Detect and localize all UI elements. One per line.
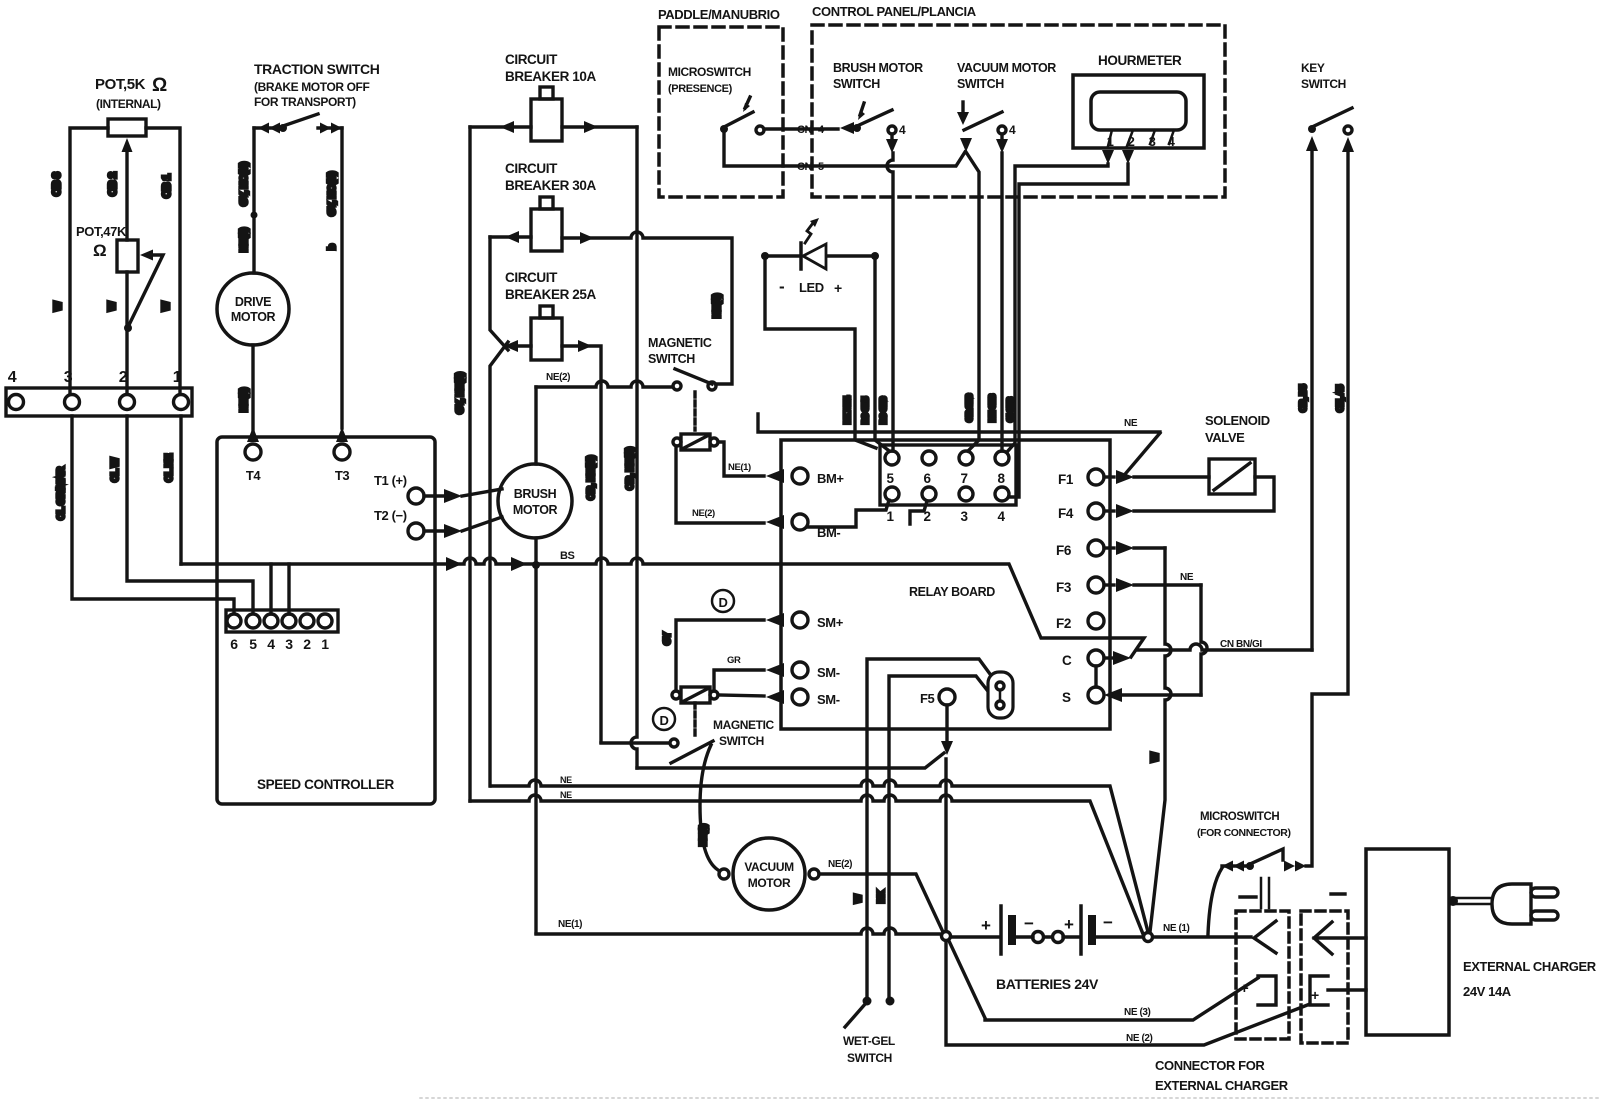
wire F5 down to junction — [944, 759, 947, 931]
wire drive motor to T4 — [251, 345, 254, 430]
svg-text:BRUSH: BRUSH — [514, 487, 557, 501]
vacuum motor M3 — [733, 838, 805, 910]
wire key left down to C wire — [1310, 148, 1313, 650]
svg-text:WET-GEL: WET-GEL — [843, 1034, 895, 1048]
circuit breaker 25A label — [505, 270, 597, 302]
svg-text:CIRCUIT: CIRCUIT — [505, 270, 558, 285]
svg-text:CL GR/MAR: CL GR/MAR — [56, 466, 67, 520]
key switch label — [1301, 61, 1346, 91]
junction node battery left — [942, 932, 951, 941]
relay coil K1 — [681, 434, 710, 450]
traction switch left double arrow — [258, 123, 280, 134]
wire pin1 to BM- — [808, 500, 889, 527]
BS connector arrow 1 — [446, 557, 462, 571]
svg-text:MOTOR: MOTOR — [231, 310, 276, 324]
wire 10A feed to F5 arrow — [637, 753, 944, 768]
microswitch presence contact — [756, 126, 764, 134]
charger cable — [1449, 898, 1492, 904]
svg-text:4: 4 — [8, 369, 17, 386]
svg-text:NE (2): NE (2) — [1126, 1033, 1153, 1044]
svg-text:4: 4 — [899, 123, 906, 137]
BS junction dot brush motor — [532, 561, 540, 569]
svg-text:F3: F3 — [1056, 580, 1072, 595]
svg-text:VALVE: VALVE — [1205, 430, 1245, 445]
svg-text:−: − — [1024, 914, 1034, 933]
controller terminal strip — [226, 610, 338, 632]
svg-text:C: C — [1062, 653, 1072, 668]
magnetic switch 2 contact — [670, 739, 678, 747]
svg-text:NE(3): NE(3) — [239, 388, 250, 412]
external charger label — [1463, 959, 1597, 999]
connector 1 female contact — [1254, 921, 1276, 953]
plug prongs — [1531, 888, 1558, 897]
svg-text:SWITCH: SWITCH — [1301, 77, 1346, 91]
wire LED right down to connector — [875, 260, 888, 450]
wire SM+ from coil2 — [676, 620, 764, 691]
hourmeter pin arrows — [1102, 150, 1134, 164]
svg-text:NE: NE — [560, 775, 572, 785]
wire coil1 to BM- — [676, 446, 764, 523]
solenoid valve body — [1209, 459, 1255, 494]
LED labels — [779, 277, 842, 296]
wire NE(2) bottom — [946, 941, 1310, 1045]
battery wire — [951, 935, 1251, 938]
wire traction left to drive motor — [252, 128, 255, 273]
svg-text:W: W — [1150, 752, 1161, 762]
svg-text:RELAY BOARD: RELAY BOARD — [909, 585, 995, 599]
key switch blade — [1312, 108, 1352, 127]
microswitch presence pivot — [720, 125, 728, 133]
relay board box — [781, 440, 1110, 729]
control panel dashed box — [812, 25, 1225, 197]
wire pot5k left to connector pin 3 — [70, 128, 108, 394]
svg-text:FOR TRANSPORT): FOR TRANSPORT) — [254, 95, 356, 109]
terminal T3 — [334, 444, 350, 460]
wet-gel switch label — [843, 1034, 895, 1065]
microswitch connector blade — [1250, 849, 1283, 864]
svg-text:(FOR CONNECTOR): (FOR CONNECTOR) — [1197, 827, 1291, 839]
svg-text:POT,47K: POT,47K — [76, 224, 127, 239]
brush switch blade — [857, 110, 892, 126]
pot 47K wiper arrow — [140, 250, 153, 261]
svg-text:D: D — [719, 595, 728, 610]
wire CB30A left vertical with zigzag to upper rail — [490, 237, 508, 786]
svg-text:CN, A5: CN, A5 — [1335, 385, 1345, 412]
wire brush switch down to pin5 (hop at CN5) — [887, 153, 893, 451]
connector strip 4-3-2-1 — [6, 388, 192, 416]
svg-text:2: 2 — [119, 369, 128, 386]
SM- terminal 2 — [766, 690, 784, 704]
svg-text:T4: T4 — [246, 468, 262, 483]
svg-text:4: 4 — [997, 509, 1005, 524]
microswitch presence blade — [724, 112, 753, 127]
svg-text:5: 5 — [818, 161, 824, 173]
svg-text:CONTROL PANEL/PLANCIA: CONTROL PANEL/PLANCIA — [812, 4, 977, 19]
svg-text:BK: BK — [876, 890, 886, 903]
wire NE(2) down to brush motor — [534, 387, 537, 464]
wire connector pin2 to controller terminal 5 — [127, 416, 253, 613]
connector 1 plus contact — [1258, 976, 1276, 1005]
wire F1 to solenoid valve — [1134, 475, 1209, 478]
svg-text:SWITCH: SWITCH — [957, 77, 1004, 91]
svg-text:BATTERIES 24V: BATTERIES 24V — [996, 976, 1099, 992]
wire CN5 from paddle — [724, 133, 965, 166]
svg-text:6: 6 — [230, 636, 238, 652]
svg-text:CIRCUIT: CIRCUIT — [505, 161, 558, 176]
svg-text:4: 4 — [267, 636, 275, 652]
arrow into T3 — [336, 427, 348, 442]
magnetic switch 1 label — [648, 336, 712, 366]
brush motor M2 — [498, 464, 572, 538]
wire pin2 stub — [910, 501, 927, 524]
svg-text:(INTERNAL): (INTERNAL) — [96, 97, 161, 111]
junction dot traction left wire — [251, 212, 258, 219]
svg-text:NE(1): NE(1) — [239, 228, 250, 252]
brush motor switch label — [833, 61, 923, 91]
wire NE(3) — [949, 941, 1258, 1020]
wire NE diagonal to F1 — [1126, 433, 1160, 473]
microswitch (presence) label — [668, 65, 751, 95]
drive motor M1 — [217, 273, 289, 345]
svg-text:CB 1: CB 1 — [161, 174, 173, 198]
coil2 dashed link — [693, 703, 696, 739]
wire C to S link — [1094, 666, 1097, 687]
brush switch actuator arrow — [860, 103, 864, 115]
svg-text:NE(1): NE(1) — [558, 919, 582, 930]
svg-text:MAGNETIC: MAGNETIC — [713, 718, 775, 732]
svg-text:SOLENOID: SOLENOID — [1205, 413, 1270, 428]
svg-text:SWITCH: SWITCH — [719, 734, 764, 748]
potentiometer POT 47K body — [117, 240, 138, 272]
wire LED left loop down — [765, 260, 876, 448]
wire CB10A right vertical down (hop over switch2 wire) — [631, 127, 637, 768]
CB25A left arrow — [504, 340, 518, 352]
wire SM-1 from coil2 — [714, 670, 764, 691]
svg-text:CB, NE(B): CB, NE(B) — [586, 456, 597, 500]
svg-text:5: 5 — [886, 471, 894, 486]
BM- terminal — [766, 515, 784, 529]
svg-text:CL W: CL W — [110, 457, 121, 482]
svg-text:NE (1): NE (1) — [1163, 923, 1190, 934]
svg-text:BN CN8: BN CN8 — [988, 394, 997, 422]
svg-text:RS CN5: RS CN5 — [861, 396, 870, 424]
svg-text:PADDLE/MANUBRIO: PADDLE/MANUBRIO — [658, 7, 780, 22]
microswitch for connector label — [1197, 811, 1291, 839]
LED wire and dots — [761, 252, 769, 260]
vacuum switch right contact — [998, 126, 1006, 134]
pot 5K wiper arrow — [122, 138, 133, 152]
svg-text:+: + — [1064, 915, 1074, 934]
CB30A left wire + arrow — [490, 235, 531, 238]
circuit breaker 30A body — [531, 209, 562, 251]
svg-text:-: - — [779, 277, 784, 296]
wire solenoid valve loop to F4 — [1134, 477, 1274, 511]
svg-text:F4: F4 — [1058, 506, 1074, 521]
LED light arrow — [805, 223, 813, 243]
svg-text:T2 (−): T2 (−) — [374, 508, 407, 523]
svg-text:MICROSWITCH: MICROSWITCH — [1200, 811, 1279, 823]
magnetic switch 1 blade — [675, 369, 712, 384]
traction switch right double arrow — [320, 123, 342, 134]
svg-text:BREAKER 10A: BREAKER 10A — [505, 69, 597, 84]
svg-text:EXTERNAL CHARGER: EXTERNAL CHARGER — [1155, 1078, 1289, 1093]
arrow into T4 — [247, 427, 259, 442]
wire jumper to wet-gel right — [889, 676, 987, 997]
svg-text:GY, NC(B): GY, NC(B) — [239, 162, 250, 206]
svg-text:Ω: Ω — [152, 75, 167, 96]
brush switch arrow — [840, 122, 854, 134]
wire F3 down to S — [1134, 583, 1201, 586]
wire F6 down (W feed) — [1134, 546, 1165, 549]
svg-text:4: 4 — [1009, 123, 1016, 137]
svg-text:2: 2 — [303, 636, 311, 652]
svg-text:NE: NE — [1180, 572, 1194, 583]
svg-text:GY, NO(B): GY, NO(B) — [327, 172, 338, 216]
svg-text:POT,5K: POT,5K — [95, 76, 146, 93]
svg-text:S: S — [1062, 690, 1071, 705]
wire NE(2) horizontal — [536, 381, 673, 387]
wire terminal3 up to BS — [287, 564, 290, 614]
svg-text:SM+: SM+ — [817, 615, 844, 630]
svg-text:F2: F2 — [1056, 616, 1071, 631]
wire hourmeter pin2 — [1009, 164, 1128, 497]
wire hourmeter pin1 — [1007, 164, 1108, 452]
speed controller box — [217, 437, 435, 804]
svg-text:LED: LED — [799, 280, 824, 295]
microswitch connector pins — [1261, 878, 1269, 908]
svg-text:RS CN6: RS CN6 — [879, 396, 888, 424]
wire connector pin3 to controller terminal 6 — [72, 416, 234, 613]
paddle/manubrio dashed box — [659, 27, 783, 197]
svg-text:W: W — [161, 301, 172, 311]
jumper connector in relay board — [988, 672, 1013, 718]
connector housing 2 dashed — [1301, 911, 1348, 1043]
svg-text:W: W — [107, 301, 118, 311]
relay coil K2 — [681, 687, 710, 703]
svg-text:GY, NE(2): GY, NE(2) — [455, 373, 466, 414]
magnetic switch 1 coil dashed link — [693, 392, 696, 430]
battery polarity labels — [981, 913, 1113, 935]
svg-text:24V 14A: 24V 14A — [1463, 984, 1512, 999]
key switch pivot — [1308, 125, 1316, 133]
circuit breaker 10A label — [505, 52, 597, 84]
SM- terminal 1 — [766, 663, 784, 677]
wire pot5k right to connector pin 1 — [146, 128, 180, 394]
svg-text:NE(2): NE(2) — [546, 372, 570, 383]
wire vacuum right down to pin8 — [1000, 153, 1003, 451]
D marker upper — [712, 590, 734, 612]
minus mark box2 — [1331, 892, 1345, 895]
connector 2 arrow contact — [1314, 922, 1366, 954]
wire NE top horizontal — [758, 414, 1160, 432]
wire CN4 to brush switch — [764, 127, 838, 130]
plug body — [1492, 884, 1531, 924]
microswitch connector left double arrow — [1222, 861, 1244, 872]
wire microswitch to battery line — [1208, 868, 1222, 934]
CB10A left wire + arrow — [470, 125, 531, 128]
traction switch label — [254, 61, 380, 109]
wire jumper to wet-gel left — [867, 659, 990, 997]
svg-text:GI CN8: GI CN8 — [1006, 397, 1015, 422]
svg-text:NE(2): NE(2) — [692, 508, 715, 519]
svg-text:7: 7 — [960, 471, 967, 486]
junction node battery right — [1144, 933, 1153, 942]
svg-text:BK CN4: BK CN4 — [843, 396, 852, 424]
key switch arrows up — [1306, 136, 1354, 152]
wire switch2 to vacuum motor (arc) — [700, 745, 718, 870]
vacuum switch blade — [964, 112, 1002, 130]
traction switch pivot — [279, 124, 287, 132]
svg-text:T3: T3 — [335, 468, 350, 483]
svg-text:NE(1): NE(1) — [728, 462, 751, 473]
svg-text:1: 1 — [321, 636, 329, 652]
microswitch connector pivot — [1246, 862, 1254, 870]
svg-text:CN: CN — [797, 161, 813, 173]
svg-text:F1: F1 — [1058, 472, 1074, 487]
svg-text:−: − — [1103, 913, 1113, 932]
svg-text:NE (3): NE (3) — [1124, 1007, 1151, 1018]
svg-text:BM-: BM- — [817, 525, 840, 540]
T2 arrow — [424, 529, 444, 532]
wire vacuum left down to pin7 — [966, 152, 979, 451]
wire NE(1) long — [536, 928, 941, 934]
svg-text:T1 (+): T1 (+) — [374, 473, 407, 488]
vacuum switch left contact arrow — [960, 138, 972, 152]
magnetic switch 2 label — [713, 718, 775, 748]
svg-text:MOTOR: MOTOR — [513, 503, 558, 517]
svg-text:CL NE: CL NE — [164, 453, 175, 482]
svg-text:NE(2): NE(2) — [828, 859, 852, 870]
brush switch contact — [888, 126, 896, 134]
svg-text:KEY: KEY — [1301, 61, 1325, 75]
svg-text:F6: F6 — [1056, 543, 1072, 558]
svg-text:1: 1 — [886, 509, 894, 524]
microswitch connector right arrow — [1284, 861, 1306, 872]
battery cell 2 — [0, 0, 1, 1]
terminal T4 — [245, 444, 261, 460]
wire terminal4 up to BS — [269, 564, 272, 614]
svg-text:SM-: SM- — [817, 665, 840, 680]
svg-text:HOURMETER: HOURMETER — [1098, 53, 1182, 68]
battery connector circles — [1033, 932, 1044, 943]
circuit breaker 30A label — [505, 161, 597, 193]
svg-text:BS: BS — [560, 550, 575, 562]
brush switch contact arrow down — [890, 134, 893, 140]
svg-text:SWITCH: SWITCH — [648, 352, 695, 366]
svg-text:GR: GR — [727, 655, 741, 666]
magnetic switch 2 blade — [671, 741, 713, 763]
wire wiper down through pot47k — [125, 146, 128, 394]
BM+ terminal — [766, 469, 784, 483]
svg-text:VACUUM: VACUUM — [744, 860, 794, 874]
svg-text:BREAKER 25A: BREAKER 25A — [505, 287, 597, 302]
wire connector pin1 to BS line — [179, 416, 182, 564]
wire coil1 to BM+ — [718, 442, 764, 476]
svg-text:5: 5 — [249, 636, 257, 652]
battery cell 1 — [999, 906, 1003, 954]
svg-text:CN BN/GI: CN BN/GI — [1220, 639, 1262, 650]
wire upper rail — [491, 780, 1148, 932]
wire traction right to T3 — [340, 128, 343, 428]
svg-text:(BRAKE MOTOR OFF: (BRAKE MOTOR OFF — [254, 80, 369, 94]
svg-text:NE(1): NE(1) — [698, 824, 708, 846]
svg-text:TRACTION SWITCH: TRACTION SWITCH — [254, 61, 380, 77]
potentiometer POT 5K body — [108, 119, 146, 136]
svg-text:D: D — [660, 713, 669, 728]
SM+ terminal — [766, 613, 784, 627]
svg-text:CN: CN — [797, 124, 813, 136]
circuit breaker 10A body — [531, 99, 562, 141]
svg-text:W: W — [53, 301, 64, 311]
svg-text:3: 3 — [960, 509, 968, 524]
svg-text:CB 2: CB 2 — [107, 172, 119, 196]
svg-text:CB, B5: CB, B5 — [1298, 385, 1308, 412]
hourmeter body — [1073, 75, 1204, 148]
svg-text:CB 3: CB 3 — [51, 172, 63, 196]
svg-text:BREAKER 30A: BREAKER 30A — [505, 178, 597, 193]
potentiometer POT 5K label — [95, 75, 167, 111]
brush switch pivot — [853, 124, 861, 132]
wire key right down to microswitch — [1306, 149, 1348, 866]
connector housing 1 dashed — [1236, 911, 1289, 1039]
svg-text:F5: F5 — [920, 691, 935, 706]
junction dot on wiper wire — [124, 324, 132, 332]
svg-text:GR CN6: GR CN6 — [965, 393, 974, 422]
wet-gel switch blade — [845, 1003, 866, 1027]
svg-text:3: 3 — [64, 369, 73, 386]
svg-text:CONNECTOR FOR: CONNECTOR FOR — [1155, 1058, 1265, 1073]
svg-text:b: b — [327, 244, 338, 250]
svg-text:8: 8 — [997, 471, 1005, 486]
vacuum motor switch label — [957, 61, 1056, 91]
wire BS main run — [181, 558, 1144, 657]
relay connector CN3 — [880, 445, 1016, 505]
T1 arrow — [424, 494, 444, 497]
svg-text:6: 6 — [923, 471, 931, 486]
magnetic switch 1 contacts — [673, 382, 681, 390]
microswitch presence actuator arrow — [745, 97, 750, 108]
vacuum switch actuator arrow — [961, 102, 964, 112]
wire brush motor bottom down to NE(1) line — [534, 538, 537, 933]
wire charger to plus2 — [1328, 988, 1366, 991]
svg-text:MICROSWITCH: MICROSWITCH — [668, 65, 751, 79]
svg-text:SM-: SM- — [817, 692, 840, 707]
traction switch blade — [283, 114, 318, 126]
svg-text:MOTOR: MOTOR — [748, 876, 791, 890]
connector for external charger label — [1155, 1058, 1289, 1093]
svg-text:(PRESENCE): (PRESENCE) — [668, 83, 733, 95]
faint scan border bottom — [420, 1097, 1599, 1099]
CB10A right wire + arrow — [562, 125, 637, 128]
svg-text:Ω: Ω — [93, 241, 106, 260]
svg-text:SPEED CONTROLLER: SPEED CONTROLLER — [257, 777, 395, 792]
svg-text:GY: GY — [662, 632, 672, 645]
svg-text:W: W — [853, 894, 863, 903]
external charger box — [1366, 849, 1449, 1035]
svg-text:BM+: BM+ — [817, 471, 844, 486]
svg-text:NE: NE — [1124, 418, 1138, 429]
hourmeter pins 1 2 3 4 — [1107, 134, 1176, 149]
svg-text:SWITCH: SWITCH — [833, 77, 880, 91]
CB30A right wire to magnetic switch (hop at x637) — [562, 232, 732, 384]
BS connector arrow 2 — [511, 557, 527, 571]
svg-text:MAGNETIC: MAGNETIC — [648, 336, 712, 350]
svg-text:1: 1 — [173, 369, 182, 386]
svg-text:3: 3 — [285, 636, 293, 652]
wire vacuum motor right to junction — [819, 874, 943, 932]
svg-text:+: + — [1311, 987, 1319, 1003]
wire into magnetic switch 2 — [601, 741, 669, 744]
